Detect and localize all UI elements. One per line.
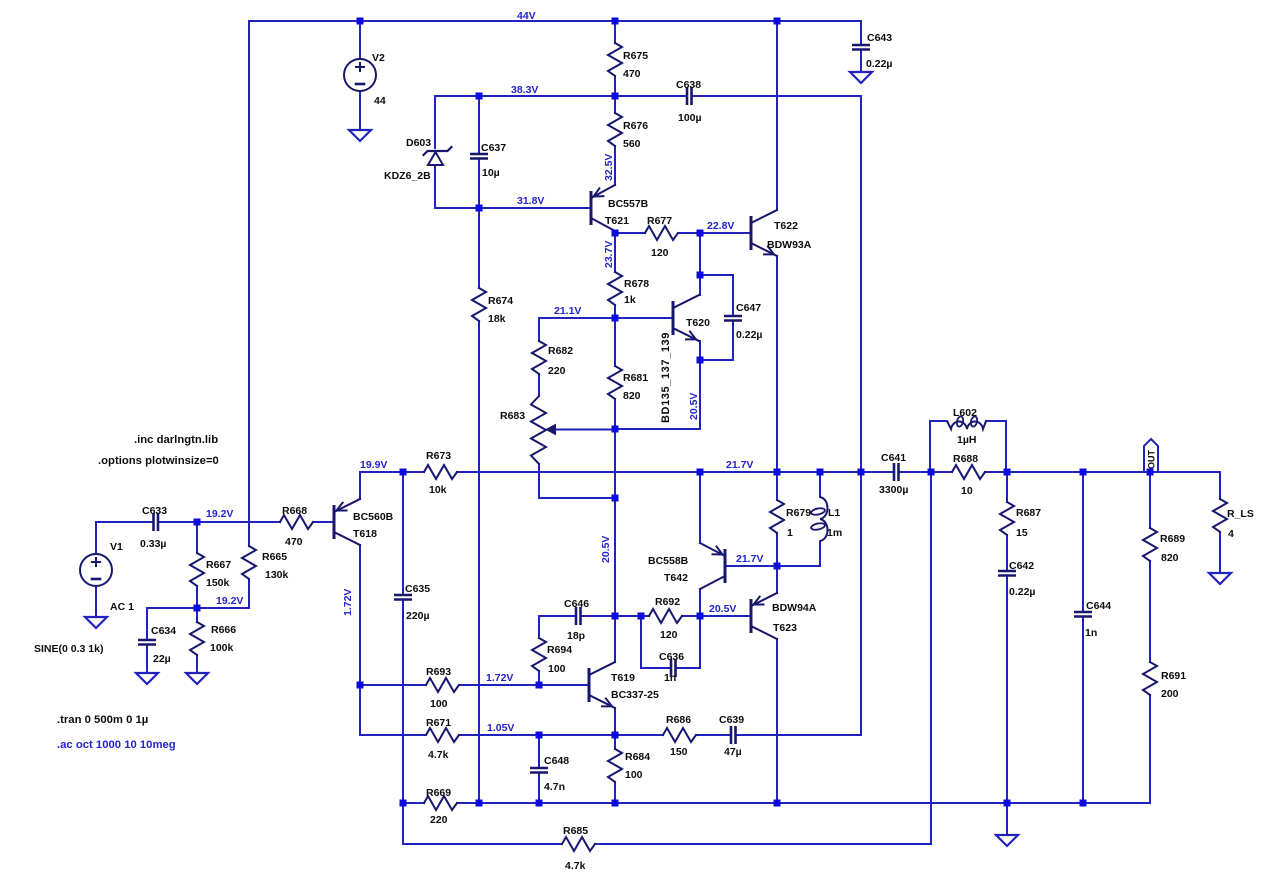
capacitor C633 (152, 513, 155, 531)
svg-text:23.7V: 23.7V (603, 241, 615, 268)
svg-text:T623: T623 (773, 622, 797, 634)
svg-text:R688: R688 (953, 453, 978, 465)
svg-text:120: 120 (651, 247, 669, 259)
svg-text:BC558B: BC558B (648, 555, 689, 567)
svg-text:BC560B: BC560B (353, 511, 394, 523)
svg-text:1m: 1m (827, 527, 842, 539)
svg-text:R681: R681 (623, 372, 648, 384)
svg-text:120: 120 (660, 629, 678, 641)
resistor R693 (426, 678, 459, 692)
svg-text:470: 470 (285, 536, 303, 548)
resistor R665 (242, 546, 256, 579)
ground under R666 (186, 673, 208, 684)
wire C647 top branch (700, 274, 733, 276)
capacitor C647 (724, 315, 742, 318)
wire left rail down to R665 (248, 21, 250, 546)
capacitor C648 (530, 767, 548, 770)
wire V1 stubs (95, 522, 97, 554)
wire T642 emitter (699, 472, 701, 543)
wire mid column 615 down (614, 429, 616, 616)
svg-text:C636: C636 (659, 651, 684, 663)
svg-text:C635: C635 (405, 583, 430, 595)
svg-text:R682: R682 (548, 345, 573, 357)
svg-text:T642: T642 (664, 572, 688, 584)
svg-text:D603: D603 (406, 137, 431, 149)
wire R683 wiper (554, 429, 615, 431)
svg-text:R686: R686 (666, 714, 691, 726)
svg-text:R666: R666 (211, 624, 236, 636)
resistor R685 (562, 837, 595, 851)
svg-text:44V: 44V (517, 10, 536, 22)
wire 21.1V rail (539, 317, 671, 319)
wire V2 stubs (359, 21, 361, 59)
svg-text:100: 100 (430, 698, 448, 710)
wire C646 line (539, 615, 576, 617)
wire 19.2V top line (96, 521, 153, 523)
zener diode D603 (424, 147, 452, 155)
svg-text:C644: C644 (1086, 600, 1111, 612)
wire T618 collector column 1.72V (359, 545, 361, 685)
svg-text:18p: 18p (567, 630, 585, 642)
wire T642 collector (699, 589, 701, 616)
resistor R691 (1143, 662, 1157, 695)
wire R671 1.05V rail (360, 734, 426, 736)
svg-text:SINE(0 0.3 1k): SINE(0 0.3 1k) (34, 643, 103, 655)
transistor T642 BC558B (700, 543, 725, 589)
svg-text:KDZ6_2B: KDZ6_2B (384, 170, 431, 182)
svg-text:19.2V: 19.2V (216, 595, 243, 607)
svg-text:L602: L602 (953, 407, 977, 419)
svg-text:3300µ: 3300µ (879, 484, 908, 496)
resistor R669 (424, 796, 457, 810)
wire 38.3V rail (435, 95, 687, 97)
wire C643 stub (860, 21, 862, 45)
svg-text:R683: R683 (500, 410, 525, 422)
svg-text:C639: C639 (719, 714, 744, 726)
svg-text:.tran 0 500m 0 1µ: .tran 0 500m 0 1µ (57, 714, 148, 726)
wire T620 emitter junction (699, 341, 701, 360)
voltage source V1 (80, 554, 112, 586)
svg-text:C633: C633 (142, 505, 167, 517)
svg-text:130k: 130k (265, 569, 289, 581)
svg-text:L1: L1 (828, 507, 840, 519)
svg-text:R665: R665 (262, 551, 287, 563)
resistor R688 (952, 465, 985, 479)
svg-text:31.8V: 31.8V (517, 195, 544, 207)
wire T621 collector to R678 to 21.1V (614, 231, 616, 272)
svg-text:1n: 1n (664, 672, 676, 684)
wire R689/R691 column (1149, 472, 1151, 528)
svg-text:BDW94A: BDW94A (772, 602, 817, 614)
svg-text:10: 10 (961, 485, 973, 497)
capacitor C635 (394, 594, 412, 597)
svg-text:4: 4 (1228, 528, 1234, 540)
wire C644 column (1082, 472, 1084, 612)
svg-text:R673: R673 (426, 450, 451, 462)
transistor T618 BC560B (334, 499, 360, 545)
wire 44V top rail (249, 20, 861, 22)
resistor R682 (532, 341, 546, 374)
wire T619 emitter + R684 (614, 708, 616, 735)
resistor R689 (1143, 528, 1157, 561)
wire T620 collector column C647 top (699, 233, 701, 275)
wire R687/C642 column (1006, 472, 1008, 502)
wire R667 column (196, 522, 198, 553)
inductor L1 (820, 497, 828, 541)
svg-text:1.72V: 1.72V (486, 672, 513, 684)
wire C636 loop (640, 616, 642, 668)
resistor R692 (649, 609, 682, 623)
wire 31.8V rail (435, 207, 589, 209)
wire C647 bottom branch (700, 359, 733, 361)
wire R_LS column (1219, 472, 1221, 499)
capacitor C637 (470, 153, 488, 156)
wire C635 column (402, 472, 404, 595)
svg-text:4.7k: 4.7k (428, 749, 449, 761)
wire C634 column (146, 608, 148, 640)
wire R694/C646 branch (538, 616, 540, 638)
svg-text:220: 220 (430, 814, 448, 826)
svg-text:19.9V: 19.9V (360, 459, 387, 471)
svg-text:820: 820 (1161, 552, 1179, 564)
svg-text:BC337-25: BC337-25 (611, 689, 659, 701)
wire main output rail 19.9V/21.7V (360, 471, 424, 473)
svg-text:C647: C647 (736, 302, 761, 314)
svg-text:1.72V: 1.72V (342, 589, 354, 616)
svg-text:R669: R669 (426, 787, 451, 799)
transistor T622 BDW93A (751, 210, 777, 256)
wire R683 bottom to column (539, 497, 615, 499)
capacitor C646 (575, 607, 578, 625)
wire T618 emitter (359, 472, 361, 499)
svg-text:220: 220 (548, 365, 566, 377)
resistor R686 (663, 728, 696, 742)
svg-text:R692: R692 (655, 596, 680, 608)
resistor R668 (280, 515, 313, 529)
wire feedback R685 loop (402, 803, 404, 844)
svg-text:470: 470 (623, 68, 641, 80)
svg-text:.inc darlngtn.lib: .inc darlngtn.lib (134, 434, 218, 446)
junction dots (357, 18, 364, 25)
svg-text:0.22µ: 0.22µ (866, 58, 893, 70)
svg-text:R667: R667 (206, 559, 231, 571)
svg-text:C646: C646 (564, 598, 589, 610)
wire bootstrap column 861 (860, 96, 862, 735)
svg-text:BC557B: BC557B (608, 198, 649, 210)
svg-text:R678: R678 (624, 278, 649, 290)
wire R675 R676 column (614, 21, 616, 43)
wire C648 column (538, 735, 540, 768)
ground under V1 (85, 617, 107, 628)
svg-text:T622: T622 (774, 220, 798, 232)
svg-text:R689: R689 (1160, 533, 1185, 545)
svg-text:R675: R675 (623, 50, 648, 62)
svg-text:200: 200 (1161, 688, 1179, 700)
svg-text:0.22µ: 0.22µ (736, 329, 763, 341)
resistor R_LS (1213, 499, 1227, 532)
svg-text:R671: R671 (426, 717, 451, 729)
svg-text:100: 100 (548, 663, 566, 675)
wire T642 base to L1 (727, 565, 820, 567)
svg-text:V2: V2 (372, 52, 385, 64)
svg-text:OUT: OUT (1147, 450, 1157, 470)
svg-text:100: 100 (625, 769, 643, 781)
wire T623 emitter (776, 566, 778, 593)
svg-text:20.5V: 20.5V (709, 603, 736, 615)
wire C637 column (478, 96, 480, 154)
resistor R679 (770, 500, 784, 533)
resistor R684 (608, 749, 622, 782)
wire bottom rail (403, 802, 424, 804)
svg-text:C638: C638 (676, 79, 701, 91)
resistor R671 (426, 728, 459, 742)
svg-text:R668: R668 (282, 505, 307, 517)
capacitor C644 (1074, 611, 1092, 614)
capacitor C634 (138, 639, 156, 642)
resistor R681 (608, 366, 622, 399)
svg-text:R691: R691 (1161, 670, 1186, 682)
svg-text:1µH: 1µH (957, 434, 976, 446)
voltage source V2 (344, 59, 376, 91)
resistor R683 trimmer (531, 396, 546, 464)
resistor R678 (608, 272, 622, 305)
capacitor C643 (852, 44, 870, 47)
svg-text:19.2V: 19.2V (206, 508, 233, 520)
wire ground stub 1007 (1006, 803, 1008, 835)
capacitor C636 (670, 659, 673, 677)
resistor R666 (190, 622, 204, 655)
capacitor C639 (730, 726, 733, 744)
wire R693 line 1.72V (360, 684, 426, 686)
svg-text:44: 44 (374, 95, 386, 107)
svg-text:220µ: 220µ (406, 610, 430, 622)
svg-text:4.7k: 4.7k (565, 860, 586, 872)
wire R681 column (614, 318, 616, 366)
resistor R667 (190, 553, 204, 586)
svg-text:150k: 150k (206, 577, 230, 589)
OUT flag (1144, 439, 1158, 473)
resistor R675 (608, 43, 622, 76)
wire T622 collector column (776, 21, 778, 210)
svg-text:21.1V: 21.1V (554, 305, 581, 317)
svg-text:T620: T620 (686, 317, 710, 329)
ground under V2 (349, 130, 371, 141)
svg-text:.ac oct 1000 10 10meg: .ac oct 1000 10 10meg (57, 739, 176, 751)
resistor R674 (472, 288, 486, 321)
svg-text:R677: R677 (647, 215, 672, 227)
capacitor C638 (686, 87, 689, 105)
wire R666 column (196, 608, 198, 622)
resistor R694 (532, 638, 546, 671)
svg-text:C648: C648 (544, 755, 569, 767)
svg-text:38.3V: 38.3V (511, 84, 538, 96)
ground under R_LS (1209, 573, 1231, 584)
svg-text:100µ: 100µ (678, 112, 702, 124)
wire R692 line 20.5V (615, 615, 649, 617)
wire R677 line 22.8V (615, 232, 645, 234)
svg-text:AC 1: AC 1 (110, 601, 134, 613)
svg-text:R674: R674 (488, 295, 513, 307)
svg-text:560: 560 (623, 138, 641, 150)
svg-text:T621: T621 (605, 215, 629, 227)
svg-text:R676: R676 (623, 120, 648, 132)
svg-text:1n: 1n (1085, 627, 1097, 639)
resistor R676 (608, 113, 622, 146)
ground under C642 column (996, 835, 1018, 846)
transistor T623 BDW94A (751, 593, 777, 639)
svg-text:BDW93A: BDW93A (767, 239, 812, 251)
svg-text:R694: R694 (547, 644, 572, 656)
svg-text:R684: R684 (625, 751, 650, 763)
svg-text:BD135_137_139: BD135_137_139 (660, 332, 672, 423)
wire R674 column (478, 208, 480, 288)
svg-text:18k: 18k (488, 313, 506, 325)
svg-text:C641: C641 (881, 452, 906, 464)
svg-text:22µ: 22µ (153, 653, 171, 665)
svg-text:V1: V1 (110, 541, 123, 553)
svg-text:1.05V: 1.05V (487, 722, 514, 734)
wire 19.2V lower line (147, 607, 249, 609)
wire 20.5V drop to R681 junction (699, 360, 701, 429)
svg-text:C637: C637 (481, 142, 506, 154)
svg-text:22.8V: 22.8V (707, 220, 734, 232)
ground under C634 (136, 673, 158, 684)
svg-text:21.7V: 21.7V (726, 459, 753, 471)
ground under C643 (850, 72, 872, 83)
svg-text:C642: C642 (1009, 560, 1034, 572)
svg-text:4.7n: 4.7n (544, 781, 565, 793)
svg-text:15: 15 (1016, 527, 1028, 539)
svg-text:820: 820 (623, 390, 641, 402)
inductor L602 (929, 421, 931, 473)
svg-text:R_LS: R_LS (1227, 508, 1254, 520)
svg-text:1: 1 (787, 527, 793, 539)
wire T622 emitter to output rail (776, 256, 778, 472)
resistor R673 (424, 465, 457, 479)
capacitor C641 (893, 463, 896, 481)
svg-text:1k: 1k (624, 294, 636, 306)
resistor R677 (645, 226, 678, 240)
svg-text:0.22µ: 0.22µ (1009, 586, 1036, 598)
svg-text:0.33µ: 0.33µ (140, 538, 167, 550)
svg-text:20.5V: 20.5V (688, 393, 700, 420)
svg-text:.options plotwinsize=0: .options plotwinsize=0 (98, 455, 219, 467)
wire R679 in output column (776, 472, 778, 500)
svg-text:21.7V: 21.7V (736, 553, 763, 565)
wire T623 collector to bottom rail (776, 639, 778, 803)
resistor R687 (1000, 502, 1014, 535)
svg-text:32.5V: 32.5V (603, 154, 615, 181)
svg-text:10µ: 10µ (482, 167, 500, 179)
transistor T620 BD135_137_139 (673, 295, 699, 341)
svg-text:150: 150 (670, 746, 688, 758)
svg-text:R679: R679 (786, 507, 811, 519)
wire R682 R683 column (538, 318, 540, 341)
wire L1 stubs (819, 472, 821, 497)
svg-text:C634: C634 (151, 625, 176, 637)
capacitor C642 (998, 570, 1016, 573)
svg-text:T618: T618 (353, 528, 377, 540)
svg-text:100k: 100k (210, 642, 234, 654)
svg-text:R693: R693 (426, 666, 451, 678)
wire D603 column (434, 96, 436, 148)
wire R665 bottom (248, 579, 250, 608)
svg-text:T619: T619 (611, 672, 635, 684)
transistor T619 BC337-25 (589, 662, 615, 708)
transistor T621 BC557B (591, 185, 615, 231)
svg-text:R687: R687 (1016, 507, 1041, 519)
svg-text:R685: R685 (563, 825, 588, 837)
svg-text:10k: 10k (429, 484, 447, 496)
svg-text:C643: C643 (867, 32, 892, 44)
svg-text:47µ: 47µ (724, 746, 742, 758)
svg-text:20.5V: 20.5V (600, 536, 612, 563)
